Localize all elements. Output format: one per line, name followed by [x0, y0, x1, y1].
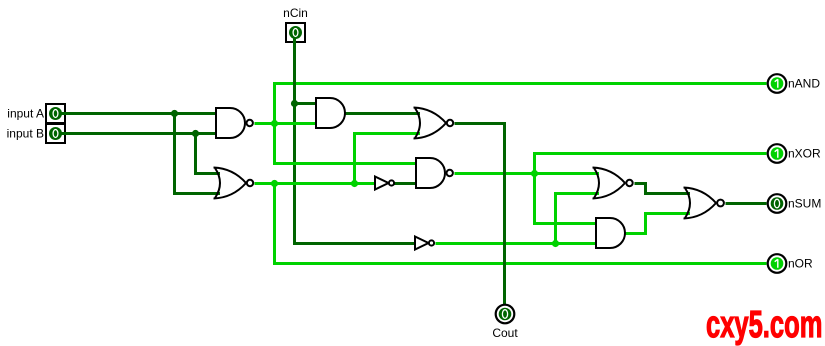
node junction NOR2 output [271, 180, 278, 187]
wire nCin branch to AND1 upper input [295, 102, 317, 105]
wire net A dark segments [62, 39, 767, 305]
svg-text:nSUM: nSUM [788, 197, 821, 211]
wire nCin vertical down and right to inverter U2 [295, 39, 416, 244]
gate NOR5 [684, 188, 724, 219]
wire NOR2 output down to nOR pin [275, 184, 767, 264]
wire AND2 output step to NOR5 lower input [626, 214, 691, 234]
wire input B branch down to NOR2 upper input [196, 134, 221, 174]
pin input A [46, 104, 67, 123]
gate NOR3 [414, 108, 454, 139]
node junction NAND2 output [531, 170, 538, 177]
svg-text:nOR: nOR [788, 257, 813, 271]
svg-text:nXOR: nXOR [788, 147, 821, 161]
wire nCin crossing patch over nAND line [293, 80, 296, 89]
pin input B [46, 124, 67, 143]
wire AND1 output to NOR3 upper input [346, 112, 421, 115]
gate NOR4 [593, 168, 633, 199]
node junction nCin at AND1 input [291, 100, 298, 107]
gate NAND1 [216, 108, 253, 138]
wire NAND1 output up to nAND pin and down to NAND2 upper input [275, 84, 767, 164]
node junction NAND1 output [271, 120, 278, 127]
node junction NOR2 net at NOR3 branch [351, 180, 358, 187]
pin nXOR output [768, 144, 787, 163]
wire inverter U1 output to NAND2 lower input [395, 182, 417, 185]
node junction on wire B [192, 130, 199, 137]
pin nOR output [768, 254, 787, 273]
wire NAND1 output to AND1 lower input [255, 122, 317, 125]
gate NOR2 [214, 168, 254, 199]
wire NAND2 output to NOR4 upper input [455, 172, 600, 175]
svg-text:Cout: Cout [492, 326, 518, 340]
svg-text:nAND: nAND [788, 77, 820, 91]
wire NOR2 output to inverter U1 [255, 182, 376, 185]
svg-text:input B: input B [7, 127, 44, 141]
wire NOR5 output to nSUM pin [726, 202, 767, 205]
gate NAND2 [416, 158, 453, 188]
gate AND2 [596, 218, 625, 248]
svg-text:input A: input A [7, 107, 44, 121]
wire input A branch down to NOR2 lower input [175, 114, 221, 194]
wire NOR3 output to Cout pin [455, 124, 505, 305]
node junction on wire A [171, 110, 178, 117]
wire net bright segments [255, 84, 767, 264]
inverter U2 [415, 237, 434, 250]
node junction inverter U2 net [552, 240, 559, 247]
watermark cxy5.com [706, 304, 786, 346]
wire NOR4 output step to NOR5 upper input [635, 184, 691, 194]
wire NAND2 output up to nXOR pin and down to AND2 upper input [535, 154, 767, 224]
pin nCin [286, 23, 305, 44]
inverter U1 [375, 177, 394, 190]
gate AND1 [316, 98, 345, 128]
pin nSUM output [768, 194, 787, 213]
wire NOR2 output up to NOR3 lower input [355, 134, 421, 184]
wire input A to NAND1 [62, 112, 217, 115]
wire branch up to NOR4 lower input [556, 194, 600, 244]
pin Cout output [496, 305, 515, 324]
svg-text:nCin: nCin [283, 6, 308, 20]
wire input B to NAND1 [62, 132, 217, 135]
pin nAND output [768, 74, 787, 93]
wire inverter U2 output to AND2 lower input [436, 242, 597, 245]
